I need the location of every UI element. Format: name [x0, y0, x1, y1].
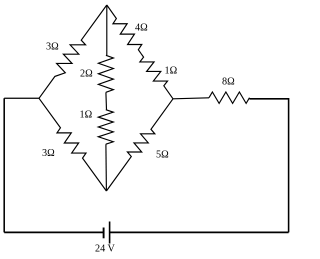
wire bottom rail left — [4, 231, 103, 233]
resistor 1ohm right (edge T to R, lower part) — [140, 53, 173, 98]
resistor 4ohm upper-right (edge T to R, upper part) — [107, 5, 142, 53]
resistor 5ohm lower-right (edge B to R) — [106, 99, 173, 191]
wire left rail down — [3, 98, 5, 232]
resistor 1ohm middle lower — [98, 110, 113, 145]
wire between 2ohm and 1ohm — [105, 92, 108, 109]
wire node L to left rail — [4, 97, 39, 99]
svg-text:1Ω: 1Ω — [165, 66, 178, 77]
resistor 3ohm lower-left (edge L to B) — [39, 98, 106, 191]
svg-text:8Ω: 8Ω — [222, 77, 235, 88]
resistor 2ohm middle upper — [98, 55, 113, 92]
svg-text:1Ω: 1Ω — [80, 110, 93, 121]
wire middle branch lower lead to node B — [105, 144, 108, 191]
battery long plate (positive) — [109, 222, 111, 244]
battery short plate (negative) — [103, 228, 105, 239]
wire bottom rail right — [110, 231, 289, 233]
svg-text:3Ω: 3Ω — [46, 42, 59, 53]
wire node R to 8ohm — [173, 98, 209, 99]
svg-text:3Ω: 3Ω — [42, 148, 55, 159]
svg-text:2Ω: 2Ω — [80, 69, 93, 80]
svg-text:4Ω: 4Ω — [135, 23, 148, 34]
resistor 3ohm upper-left (edge T to L) — [39, 5, 107, 98]
wire middle branch upper lead from node T — [106, 5, 108, 55]
resistor 8ohm right branch — [209, 92, 250, 103]
wire right rail up to 8ohm — [250, 99, 289, 233]
svg-text:24 V: 24 V — [95, 244, 116, 255]
svg-text:5Ω: 5Ω — [156, 150, 169, 161]
